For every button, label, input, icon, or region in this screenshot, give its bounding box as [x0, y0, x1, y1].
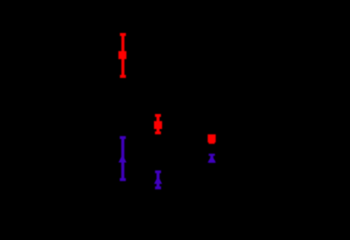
red errorbar 1 (large, left column)	[120, 33, 126, 78]
blue triangle marker 3	[208, 155, 216, 162]
blue triangle marker 2	[154, 176, 162, 184]
red square marker 1	[118, 51, 126, 59]
blue errorbar 3 (small, right column)	[209, 154, 215, 163]
red errorbar 3 (small, right column)	[209, 136, 215, 144]
blue triangle marker 1	[119, 155, 127, 163]
red square marker 3	[208, 134, 216, 142]
red square marker 2	[154, 121, 162, 129]
red errorbar 2 (middle column)	[155, 114, 161, 134]
blue errorbar 1 (large, left column)	[120, 136, 126, 181]
blue errorbar 2 (middle column)	[155, 170, 161, 189]
